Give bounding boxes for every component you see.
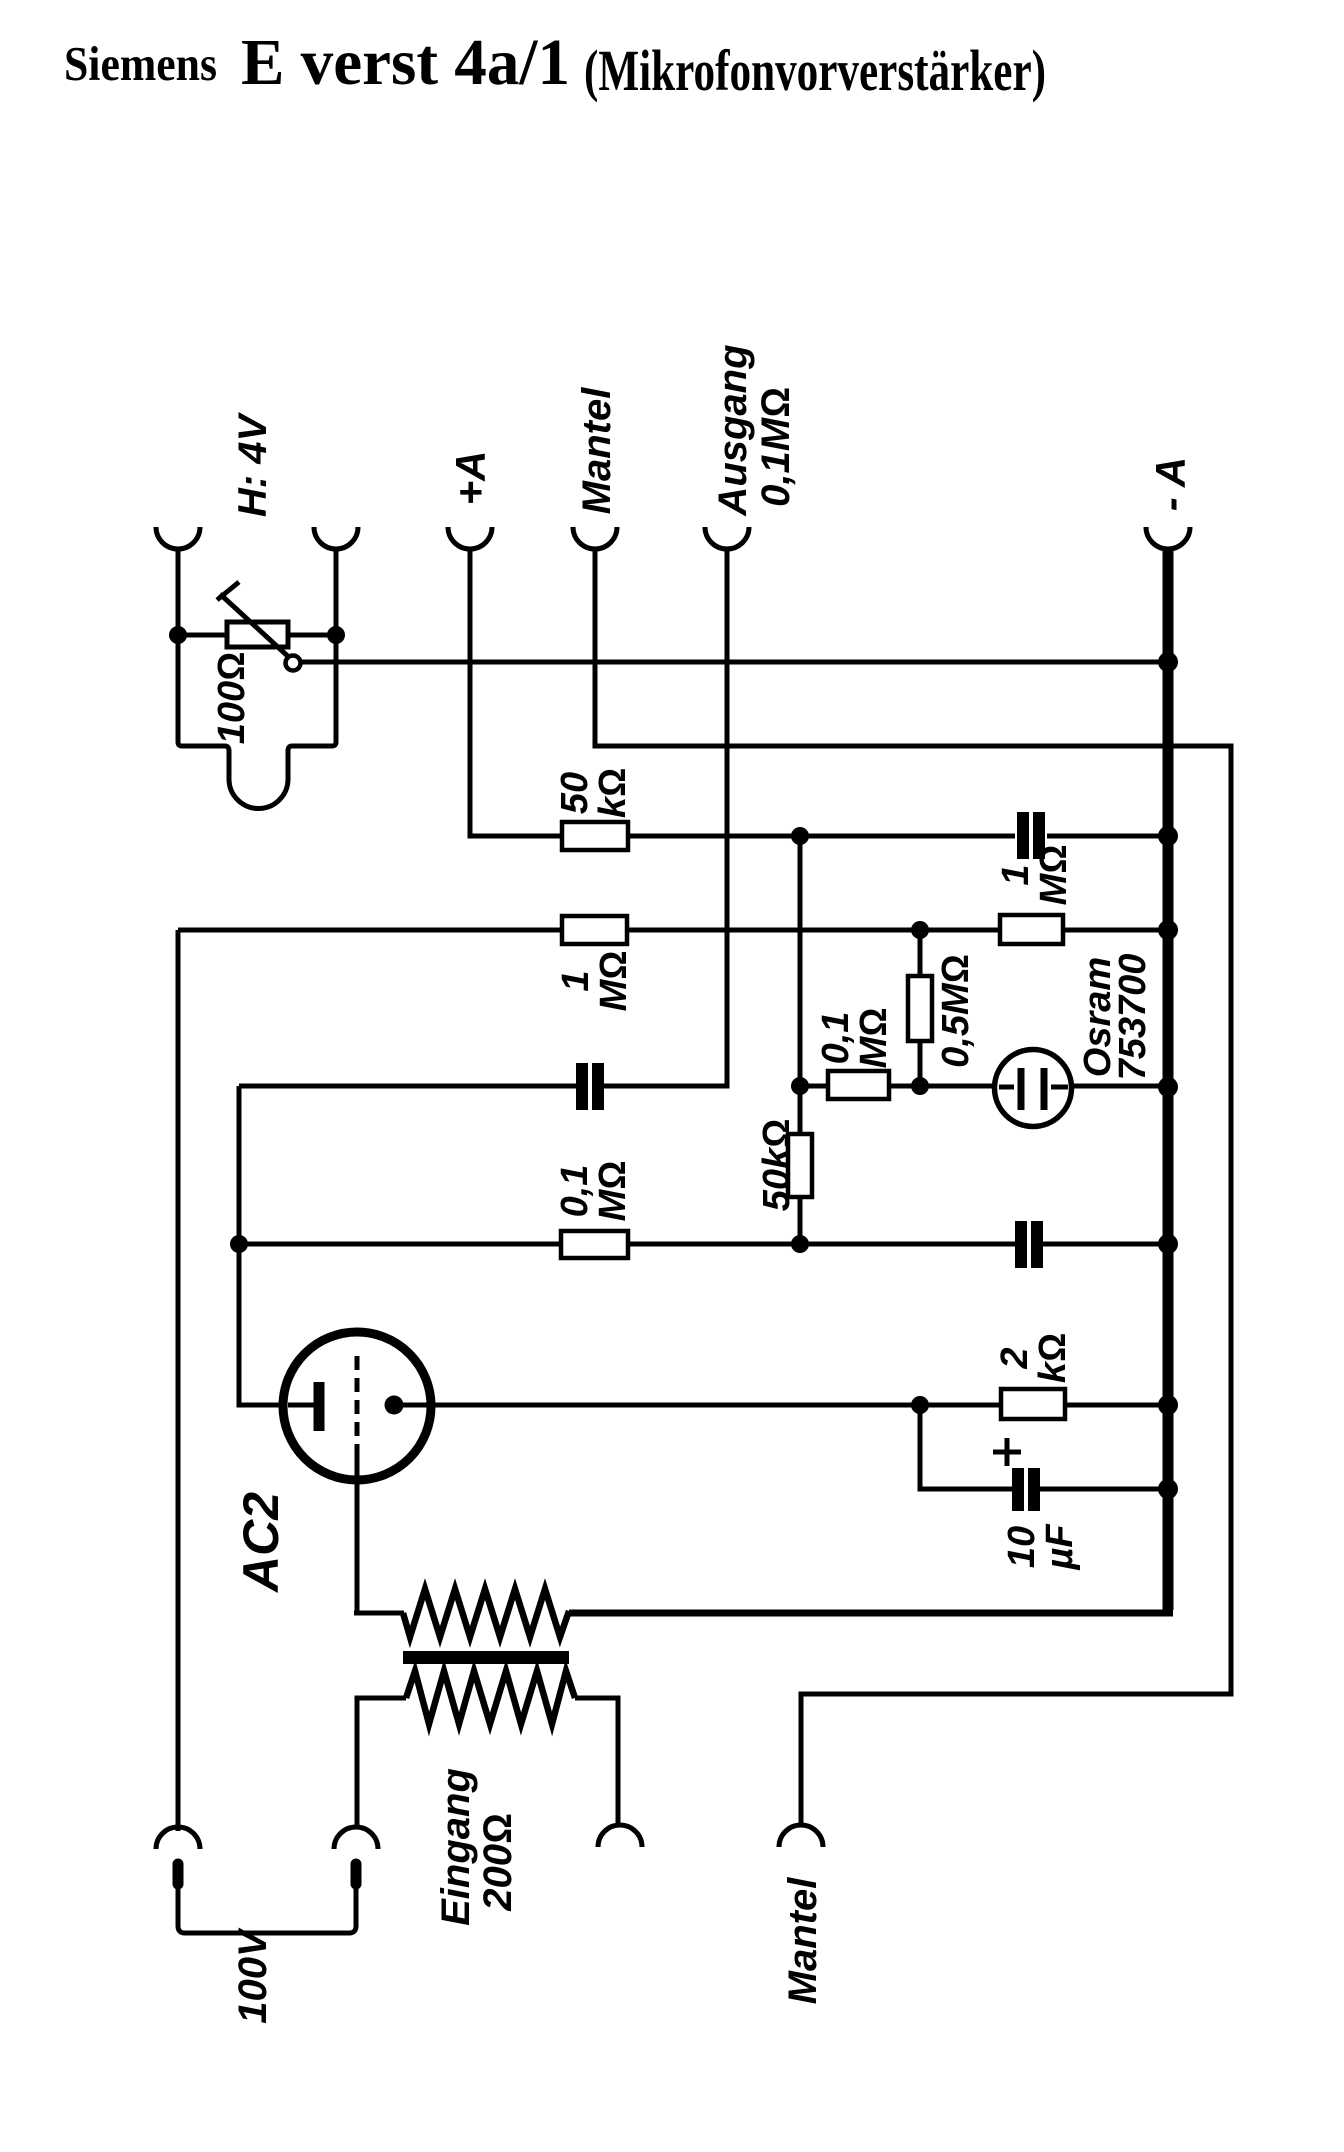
terminal H1 (heater left): [156, 527, 200, 549]
label 0,1 MOhm (middle): [815, 1008, 895, 1069]
wire heater row: [178, 633, 336, 638]
junction cathode row x239: [230, 1235, 248, 1253]
junction screen node lower: [791, 1077, 809, 1095]
wire grid lead to transformer: [354, 1452, 404, 1613]
title (Mikrofonvorverstaerker): [584, 38, 1046, 103]
wire coupling row y1086 left: [239, 1084, 577, 1089]
wire H2 stub: [334, 550, 339, 632]
svg-text:0,1MΩ: 0,1MΩ: [754, 387, 798, 507]
triode AC2: [283, 1332, 431, 1480]
wire grid node vertical x239: [239, 1086, 314, 1405]
wire Ausgang drop: [603, 550, 727, 1086]
wire secondary left leg: [357, 1698, 406, 1829]
wire 100V bridge: [178, 1884, 356, 1933]
resistor 2 kOhm: [1001, 1389, 1065, 1419]
svg-text:Eingang: Eingang: [434, 1768, 478, 1926]
svg-text:- A: - A: [1147, 457, 1194, 511]
wire -A bus vertical: [1163, 550, 1174, 1610]
wire left return (long): [176, 930, 181, 1831]
label 1 MOhm (right): [995, 845, 1075, 906]
transformer primary winding (upper): [403, 1589, 569, 1637]
glow lamp Osram 753700: [995, 1050, 1072, 1127]
label 10 uF: [1001, 1523, 1081, 1571]
wire cathode row y1244: [239, 1242, 1164, 1247]
svg-text:2kΩ: 2kΩ: [994, 1333, 1074, 1383]
title Siemens: [64, 36, 217, 91]
capacitor C1 (screen bypass): [1023, 812, 1039, 859]
junction cathode row x800: [791, 1235, 809, 1253]
svg-text:0,1MΩ: 0,1MΩ: [554, 1161, 634, 1222]
svg-text:0,5MΩ: 0,5MΩ: [935, 954, 977, 1068]
junction -A screen row: [1158, 826, 1178, 846]
svg-text:Mantel: Mantel: [781, 1877, 825, 2005]
wire +A feed: [470, 550, 562, 836]
svg-text:AC2: AC2: [233, 1492, 289, 1594]
label 100V: [231, 1927, 275, 2024]
transformer secondary winding (lower): [406, 1671, 575, 1724]
title E verst 4a/1: [241, 26, 570, 99]
wire wiper to -A: [300, 660, 1166, 665]
capacitor C3 (cathode bypass): [1021, 1221, 1037, 1268]
resistor 0,1 MOhm (middle): [828, 1071, 889, 1099]
terminal Mantel (top): [573, 527, 617, 549]
svg-text:H: 4V: H: 4V: [231, 412, 275, 518]
junction heater left: [169, 626, 187, 644]
resistor 1 MOhm (right): [1000, 915, 1063, 944]
resistor 0,5 MOhm (vertical): [908, 976, 932, 1041]
wire anode row y1405: [398, 1403, 1164, 1408]
terminal -A: [1146, 527, 1190, 549]
svg-text:100V: 100V: [231, 1927, 275, 2024]
svg-text:(Mikrofonvorverstärker): (Mikrofonvorverstärker): [584, 38, 1046, 103]
wire grid-leak row y930: [178, 928, 1164, 933]
svg-text:1MΩ: 1MΩ: [995, 845, 1075, 906]
label 2 kOhm: [994, 1333, 1074, 1383]
label Osram 753700: [1077, 954, 1154, 1081]
terminal Eingang socket: [598, 1825, 642, 1847]
wire -A bus horizontal to transformer: [569, 1610, 1173, 1617]
terminal Mantel socket (bottom): [779, 1825, 823, 1847]
junction -A cathode row: [1158, 1234, 1178, 1254]
capacitor C4 10uF electrolytic: [993, 1438, 1034, 1511]
label +A: [447, 451, 494, 506]
svg-text:0,1MΩ: 0,1MΩ: [815, 1008, 895, 1069]
label Mantel (bottom): [781, 1877, 825, 2005]
label 1 MOhm (left): [555, 951, 635, 1012]
svg-text:100Ω: 100Ω: [211, 652, 253, 745]
label 0,5 MOhm: [935, 954, 977, 1068]
label AC2: [233, 1492, 289, 1594]
svg-text:E verst 4a/1: E verst 4a/1: [241, 26, 570, 99]
junction grid-leak / 0,5M: [911, 921, 929, 939]
label 0,1 MOhm (left): [554, 1161, 634, 1222]
label -A: [1147, 457, 1194, 511]
junction anode node: [911, 1077, 929, 1095]
resistor 0,1 MOhm (left): [561, 1231, 628, 1258]
heater plug enclosure: [178, 637, 336, 809]
svg-text:Ausgang: Ausgang: [711, 344, 755, 516]
junction -A 10uF row: [1158, 1479, 1178, 1499]
junction -A gridleak row: [1158, 920, 1178, 940]
label 50 kOhm: [554, 768, 634, 818]
label Ausgang 0,1 MOhm: [711, 344, 798, 516]
resistor 1 MOhm (left): [562, 916, 627, 944]
svg-text:200Ω: 200Ω: [476, 1813, 520, 1911]
svg-text:1MΩ: 1MΩ: [555, 951, 635, 1012]
pin 100V left: [173, 1864, 184, 1884]
label Mantel (top): [575, 387, 619, 515]
resistor 50 kOhm (screen feed): [562, 822, 628, 850]
svg-text:50kΩ: 50kΩ: [756, 1119, 798, 1212]
wire secondary right leg: [575, 1698, 618, 1827]
terminal H2 (heater right): [314, 527, 358, 549]
svg-text:+A: +A: [447, 451, 494, 506]
pin 100V right: [351, 1864, 362, 1884]
junction heater right: [327, 626, 345, 644]
svg-text:Mantel: Mantel: [575, 387, 619, 515]
terminal Ausgang: [705, 527, 749, 549]
junction screen node: [791, 827, 809, 845]
junction anode row x920: [911, 1396, 929, 1414]
label H: 4V: [231, 412, 275, 518]
capacitor C2 (coupling): [582, 1063, 598, 1110]
label 100 Ohm: [211, 652, 253, 745]
wire screen row y836: [628, 834, 1164, 839]
terminal +A: [448, 527, 492, 549]
wire anode node row y1086 right: [800, 1084, 1164, 1089]
potentiometer 100 Ohm: [217, 582, 301, 671]
wire 10uF branch: [920, 1405, 1164, 1489]
wire screen dropper vertical x800: [798, 836, 803, 1244]
resistor 50 kOhm (vertical): [788, 1134, 812, 1197]
transformer core: [403, 1651, 569, 1664]
wire Mantel shield run: [595, 550, 1231, 1827]
svg-text:10µF: 10µF: [1001, 1523, 1081, 1571]
terminal 100V right socket: [334, 1827, 378, 1849]
junction -A anode row: [1158, 1395, 1178, 1415]
svg-text:50kΩ: 50kΩ: [554, 768, 634, 818]
wire H1 stub: [176, 550, 181, 632]
wire 0,5M link x920: [918, 930, 923, 1086]
label Eingang 200 Ohm: [434, 1768, 520, 1926]
svg-text:Siemens: Siemens: [64, 36, 217, 91]
junction -A wiper: [1158, 652, 1178, 672]
junction -A anode node row: [1158, 1077, 1178, 1097]
svg-text:753700: 753700: [1112, 954, 1154, 1081]
label 50 kOhm (vertical): [756, 1119, 798, 1212]
terminal 100V left socket: [156, 1827, 200, 1849]
